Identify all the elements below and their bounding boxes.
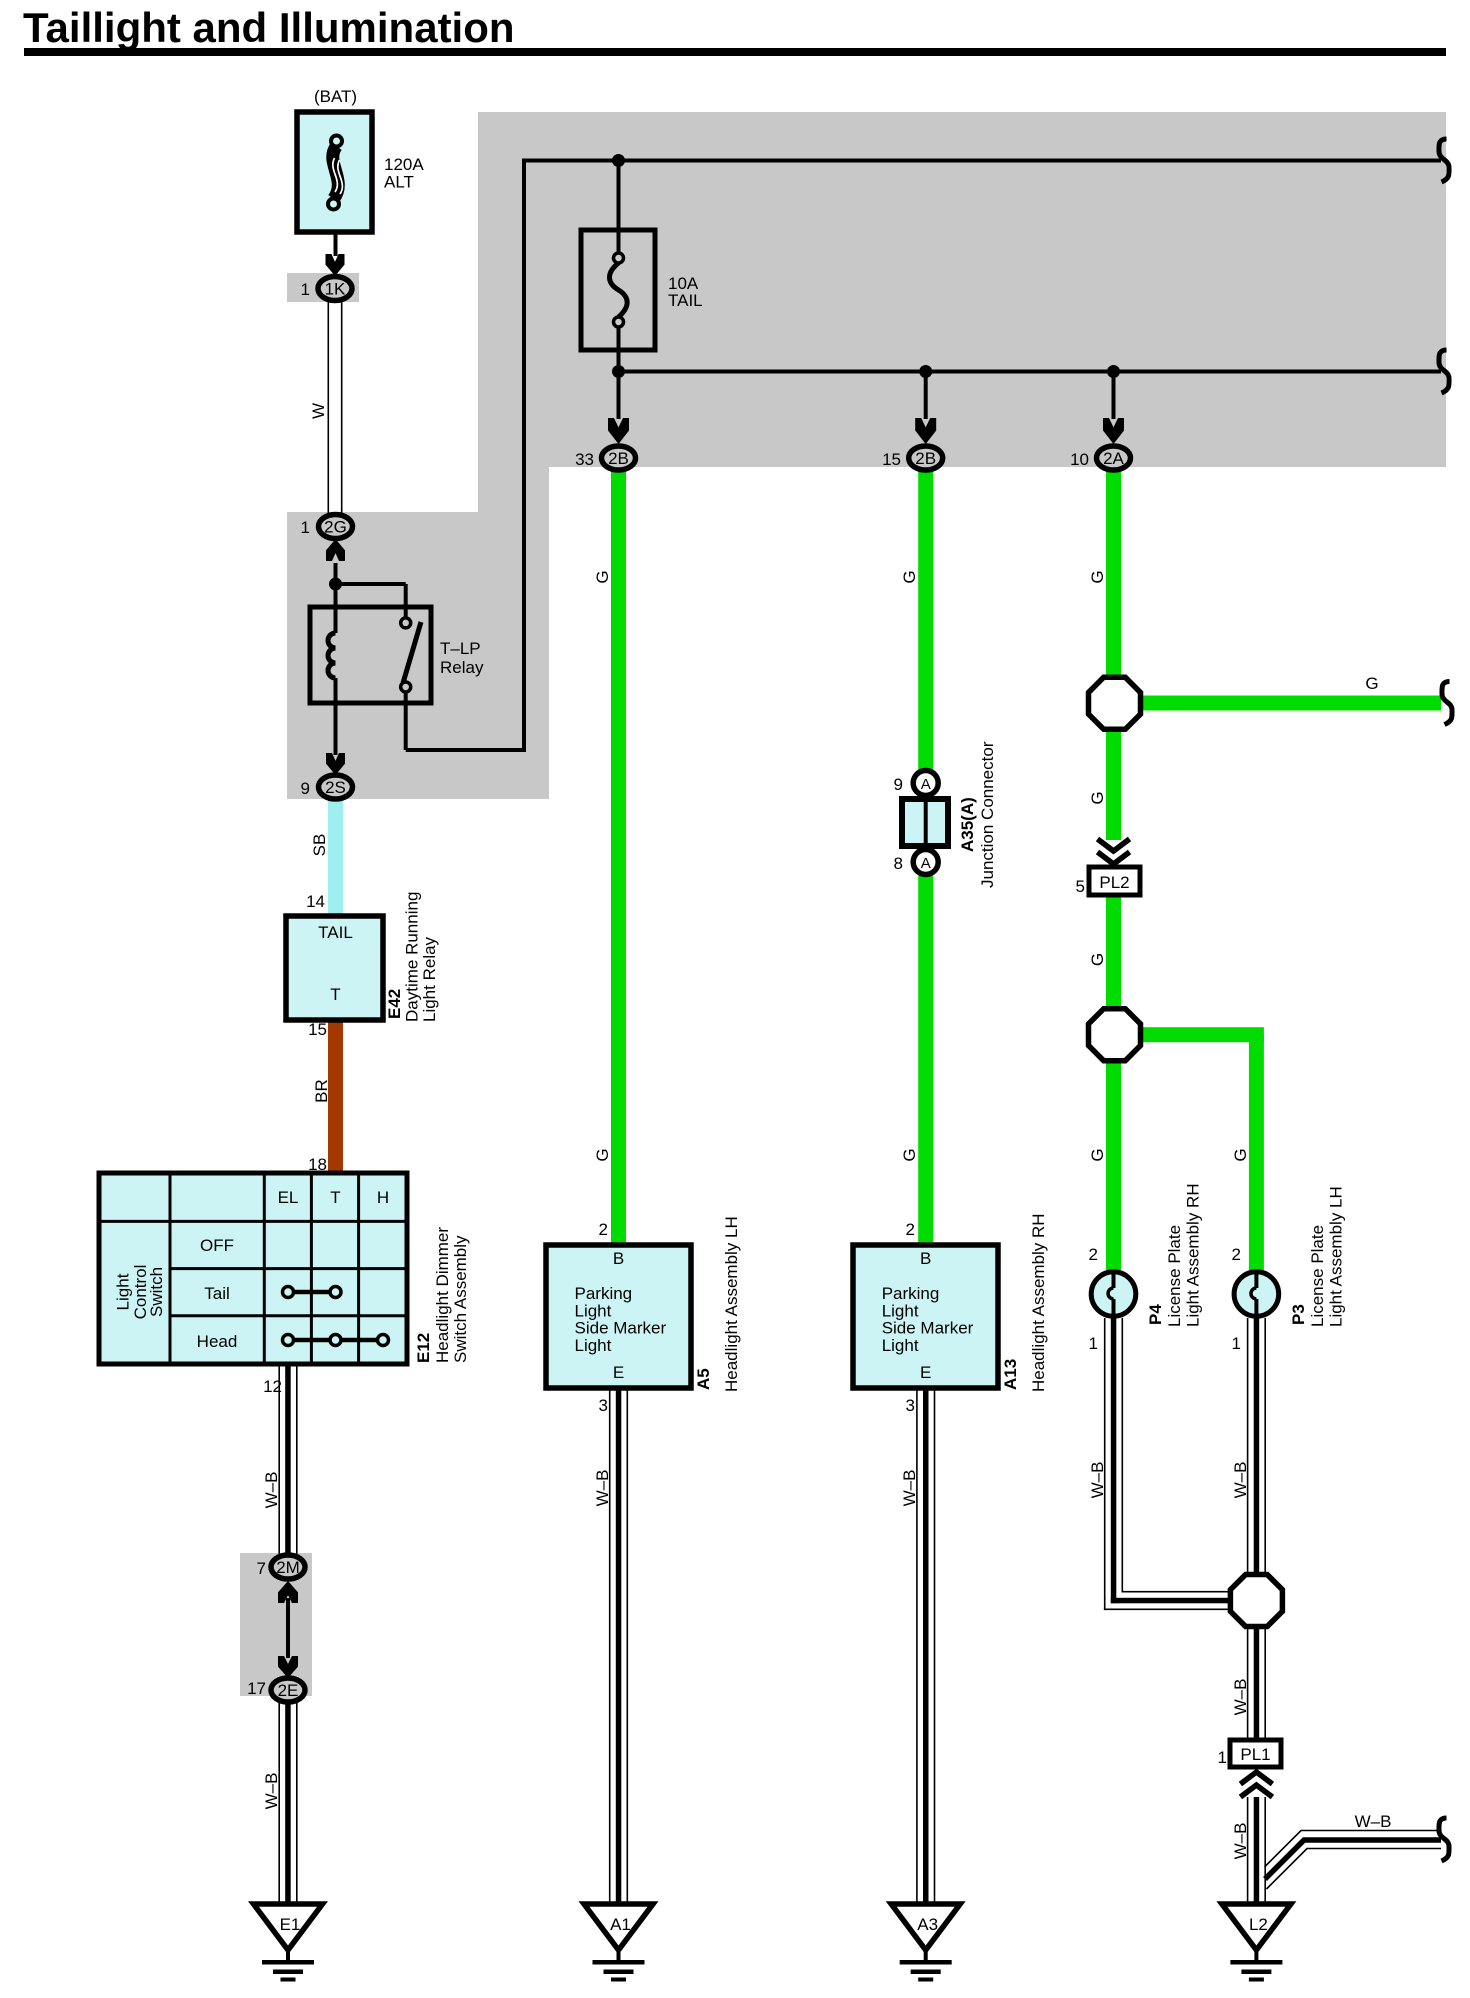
svg-text:Light: Light xyxy=(882,1301,919,1320)
svg-text:2M: 2M xyxy=(276,1558,300,1577)
svg-text:W–B: W–B xyxy=(262,1472,281,1509)
svg-text:14: 14 xyxy=(306,892,325,911)
svg-text:G: G xyxy=(1365,674,1378,693)
svg-text:3: 3 xyxy=(599,1396,608,1415)
svg-text:G: G xyxy=(900,1148,919,1161)
svg-text:1: 1 xyxy=(301,518,310,537)
svg-text:1: 1 xyxy=(1089,1334,1098,1353)
svg-text:2S: 2S xyxy=(325,778,346,797)
svg-text:Side Marker: Side Marker xyxy=(882,1319,974,1338)
svg-text:Headlight Assembly RH: Headlight Assembly RH xyxy=(1029,1213,1048,1392)
svg-text:T: T xyxy=(330,985,340,1004)
svg-text:5: 5 xyxy=(1076,877,1085,896)
svg-text:Switch: Switch xyxy=(147,1267,166,1317)
svg-text:G: G xyxy=(900,570,919,583)
svg-text:Headlight Dimmer: Headlight Dimmer xyxy=(433,1227,452,1363)
svg-text:12: 12 xyxy=(263,1377,282,1396)
svg-text:Light Assembly LH: Light Assembly LH xyxy=(1327,1186,1346,1327)
svg-text:A3: A3 xyxy=(917,1915,938,1934)
svg-text:W–B: W–B xyxy=(1088,1462,1107,1499)
svg-text:Light Relay: Light Relay xyxy=(420,936,439,1022)
svg-text:2: 2 xyxy=(1089,1245,1098,1264)
svg-text:Tail: Tail xyxy=(204,1284,230,1303)
svg-text:EL: EL xyxy=(278,1188,299,1207)
svg-text:T: T xyxy=(330,1188,340,1207)
svg-text:T–LP: T–LP xyxy=(440,639,481,658)
svg-text:18: 18 xyxy=(308,1155,327,1174)
svg-text:PL1: PL1 xyxy=(1240,1745,1270,1764)
svg-text:2E: 2E xyxy=(278,1681,299,1700)
svg-text:2: 2 xyxy=(1232,1245,1241,1264)
svg-text:10: 10 xyxy=(1070,450,1089,469)
svg-text:ALT: ALT xyxy=(384,173,414,192)
svg-text:License Plate: License Plate xyxy=(1165,1225,1184,1327)
svg-text:P4: P4 xyxy=(1146,1304,1165,1325)
svg-text:W–B: W–B xyxy=(1355,1812,1392,1831)
svg-text:G: G xyxy=(1088,953,1107,966)
svg-text:License Plate: License Plate xyxy=(1308,1225,1327,1327)
svg-text:Junction Connector: Junction Connector xyxy=(978,741,997,888)
svg-text:P3: P3 xyxy=(1289,1304,1308,1325)
svg-text:2: 2 xyxy=(599,1220,608,1239)
svg-text:Parking: Parking xyxy=(575,1284,633,1303)
svg-text:W–B: W–B xyxy=(1231,1679,1250,1716)
svg-text:Switch Assembly: Switch Assembly xyxy=(451,1235,470,1363)
svg-text:E1: E1 xyxy=(280,1915,301,1934)
svg-text:A1: A1 xyxy=(610,1915,631,1934)
svg-text:Light Assembly RH: Light Assembly RH xyxy=(1184,1183,1203,1327)
svg-text:17: 17 xyxy=(247,1679,266,1698)
svg-text:15: 15 xyxy=(308,1020,327,1039)
svg-text:2: 2 xyxy=(906,1220,915,1239)
svg-text:E: E xyxy=(613,1363,624,1382)
svg-text:G: G xyxy=(593,1148,612,1161)
svg-text:G: G xyxy=(1231,1148,1250,1161)
svg-text:W: W xyxy=(309,403,328,419)
svg-text:Taillight and Illumination: Taillight and Illumination xyxy=(23,4,515,51)
svg-text:A5: A5 xyxy=(694,1368,713,1390)
svg-text:Relay: Relay xyxy=(440,658,484,677)
svg-text:3: 3 xyxy=(906,1396,915,1415)
svg-text:G: G xyxy=(593,570,612,583)
svg-text:(BAT): (BAT) xyxy=(314,87,357,106)
svg-text:1: 1 xyxy=(1218,1748,1227,1767)
svg-text:8: 8 xyxy=(894,854,903,873)
svg-text:2G: 2G xyxy=(324,518,347,537)
svg-text:15: 15 xyxy=(882,450,901,469)
svg-text:TAIL: TAIL xyxy=(318,923,353,942)
svg-text:Side Marker: Side Marker xyxy=(575,1319,667,1338)
svg-text:L2: L2 xyxy=(1249,1915,1268,1934)
svg-text:W–B: W–B xyxy=(900,1470,919,1507)
svg-text:Head: Head xyxy=(197,1332,238,1351)
svg-text:G: G xyxy=(1088,1148,1107,1161)
svg-text:W–B: W–B xyxy=(593,1470,612,1507)
svg-text:W–B: W–B xyxy=(1231,1823,1250,1860)
svg-text:2B: 2B xyxy=(915,449,936,468)
svg-text:A13: A13 xyxy=(1001,1359,1020,1390)
svg-text:1K: 1K xyxy=(325,280,346,299)
svg-text:A35(A): A35(A) xyxy=(958,797,977,852)
svg-text:B: B xyxy=(613,1249,624,1268)
svg-text:E: E xyxy=(920,1363,931,1382)
svg-text:OFF: OFF xyxy=(200,1236,234,1255)
svg-text:7: 7 xyxy=(257,1559,266,1578)
svg-text:SB: SB xyxy=(310,834,329,857)
svg-text:9: 9 xyxy=(301,779,310,798)
svg-text:Light: Light xyxy=(575,1336,612,1355)
svg-text:B: B xyxy=(920,1249,931,1268)
svg-text:1: 1 xyxy=(1232,1334,1241,1353)
svg-text:Light: Light xyxy=(114,1273,133,1310)
svg-text:33: 33 xyxy=(575,450,594,469)
svg-text:A: A xyxy=(921,855,931,872)
svg-text:TAIL: TAIL xyxy=(668,291,703,310)
svg-text:1: 1 xyxy=(301,280,310,299)
svg-text:E12: E12 xyxy=(414,1333,433,1363)
svg-text:A: A xyxy=(921,776,931,793)
svg-text:W–B: W–B xyxy=(262,1773,281,1810)
svg-text:Headlight Assembly LH: Headlight Assembly LH xyxy=(722,1216,741,1392)
svg-text:Light: Light xyxy=(882,1336,919,1355)
svg-text:G: G xyxy=(1088,570,1107,583)
svg-text:Parking: Parking xyxy=(882,1284,940,1303)
svg-text:120A: 120A xyxy=(384,155,424,174)
svg-text:W–B: W–B xyxy=(1231,1462,1250,1499)
svg-text:G: G xyxy=(1088,791,1107,804)
svg-text:2A: 2A xyxy=(1103,449,1124,468)
svg-text:Light: Light xyxy=(575,1301,612,1320)
svg-text:Daytime Running: Daytime Running xyxy=(403,892,422,1022)
svg-text:E42: E42 xyxy=(385,989,404,1019)
svg-text:BR: BR xyxy=(312,1079,331,1103)
svg-text:PL2: PL2 xyxy=(1099,873,1129,892)
svg-text:2B: 2B xyxy=(608,449,629,468)
svg-text:9: 9 xyxy=(894,775,903,794)
svg-text:H: H xyxy=(377,1188,389,1207)
